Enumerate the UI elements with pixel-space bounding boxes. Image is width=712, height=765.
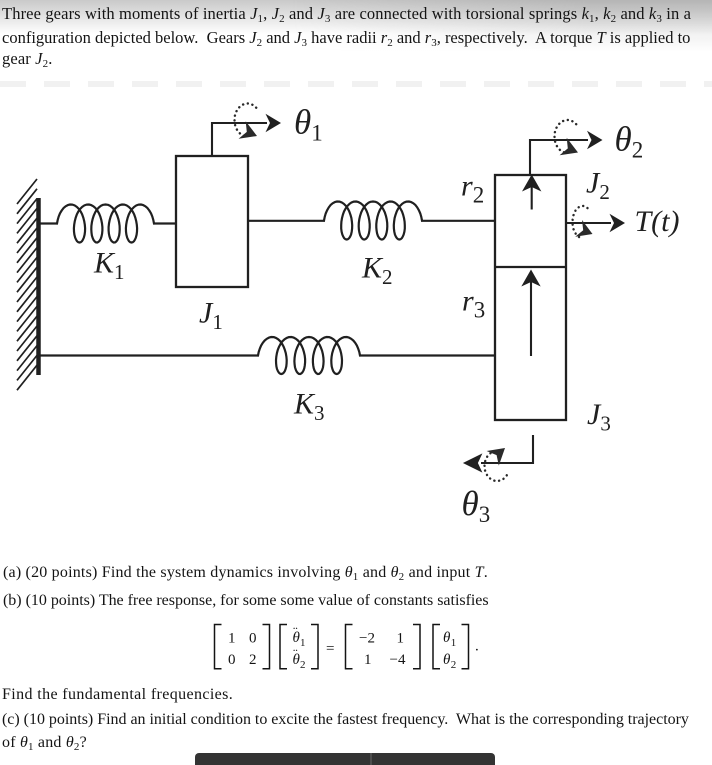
svg-text:1: 1 — [451, 637, 457, 649]
svg-text:θ: θ — [443, 630, 451, 646]
svg-text:θ: θ — [443, 652, 451, 668]
svg-text:1: 1 — [300, 637, 306, 649]
svg-text:1: 1 — [228, 631, 236, 647]
svg-text:1: 1 — [397, 631, 405, 647]
svg-text:2: 2 — [249, 652, 257, 668]
svg-text:=: = — [326, 641, 334, 657]
svg-text:−4: −4 — [390, 652, 406, 668]
svg-text:¨: ¨ — [293, 648, 298, 663]
svg-text:2: 2 — [300, 659, 306, 671]
svg-text:1: 1 — [364, 652, 372, 668]
svg-text:0: 0 — [249, 631, 257, 647]
svg-text:0: 0 — [228, 652, 236, 668]
svg-text:−2: −2 — [359, 631, 375, 647]
svg-text:.: . — [475, 639, 479, 655]
svg-text:2: 2 — [451, 659, 457, 671]
svg-text:¨: ¨ — [293, 626, 298, 641]
